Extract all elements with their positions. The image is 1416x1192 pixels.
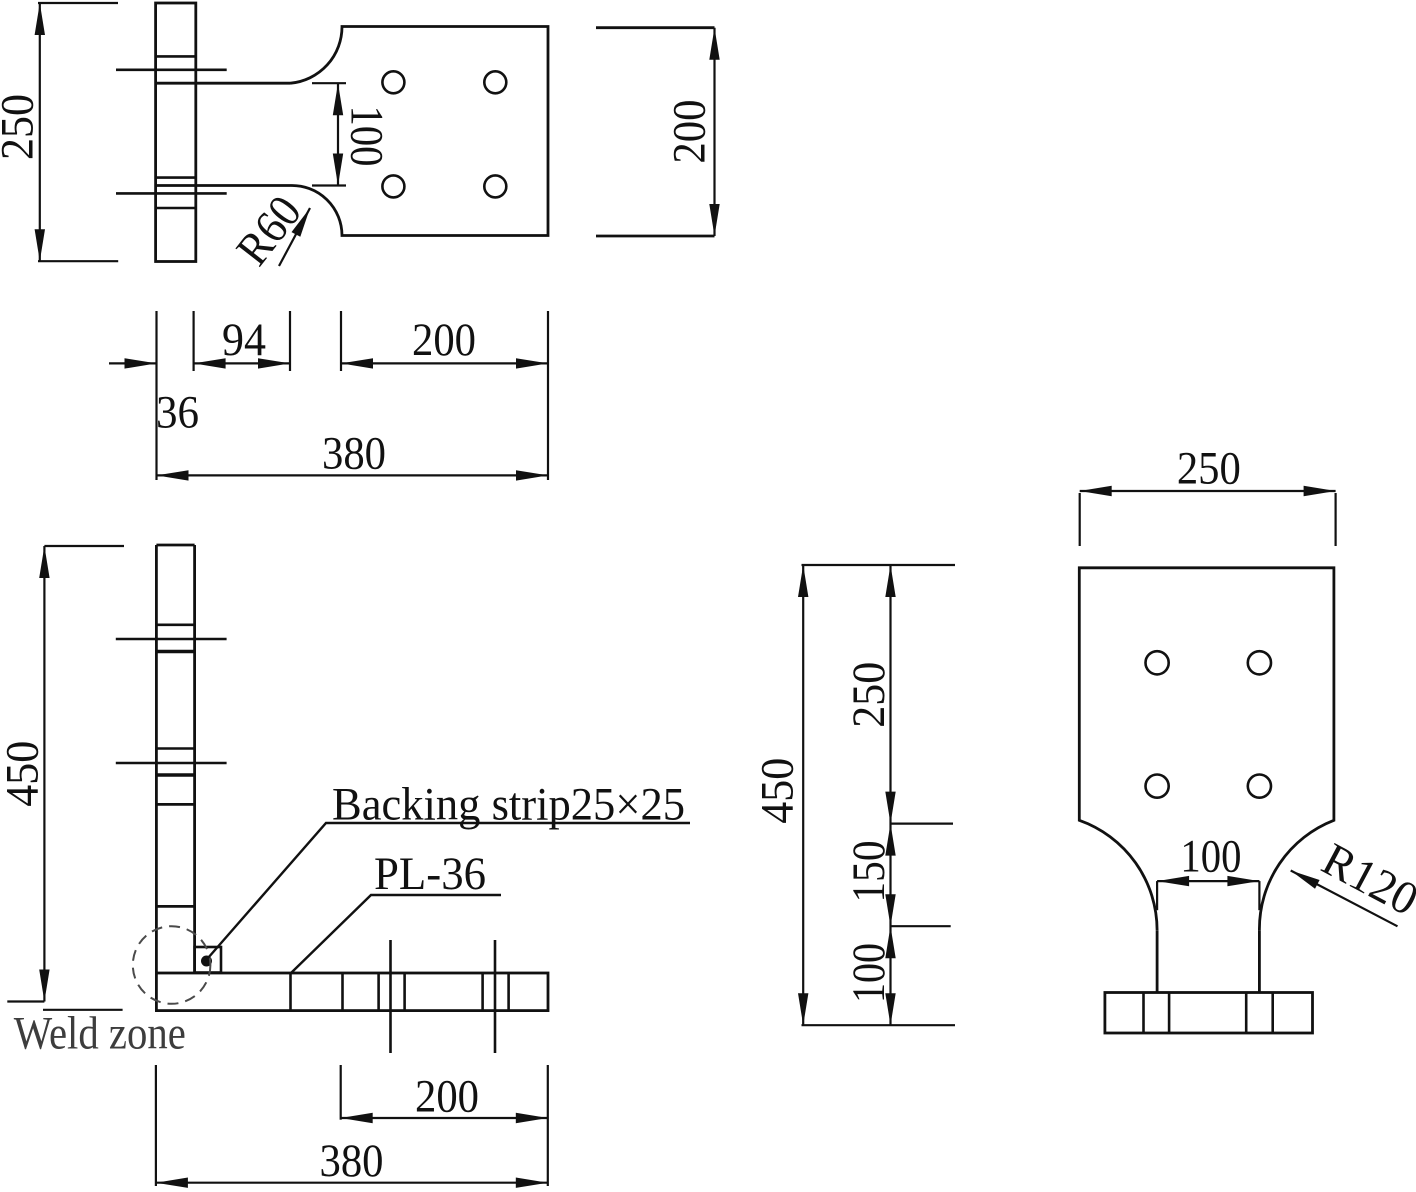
svg-text:380: 380 <box>320 1135 384 1187</box>
svg-text:200: 200 <box>415 1070 479 1122</box>
svg-text:PL-36: PL-36 <box>374 848 486 900</box>
svg-text:450: 450 <box>752 758 804 824</box>
svg-text:380: 380 <box>322 427 386 479</box>
svg-text:250: 250 <box>0 94 44 160</box>
svg-text:36: 36 <box>156 387 199 439</box>
svg-text:200: 200 <box>664 100 716 164</box>
svg-text:100: 100 <box>1180 831 1241 883</box>
svg-text:100: 100 <box>843 943 895 1003</box>
svg-text:150: 150 <box>843 841 895 903</box>
svg-text:250: 250 <box>1177 442 1241 494</box>
svg-text:Weld zone: Weld zone <box>14 1008 186 1060</box>
svg-text:100: 100 <box>341 106 393 167</box>
svg-text:Backing strip25×25: Backing strip25×25 <box>332 779 685 831</box>
svg-text:94: 94 <box>222 314 266 366</box>
svg-text:450: 450 <box>0 741 48 807</box>
svg-text:250: 250 <box>843 662 895 728</box>
svg-text:200: 200 <box>412 314 476 366</box>
